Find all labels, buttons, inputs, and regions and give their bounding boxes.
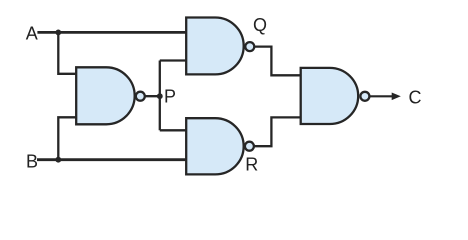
svg-text:P: P	[164, 87, 176, 107]
svg-text:R: R	[245, 154, 258, 174]
svg-text:Q: Q	[253, 15, 267, 35]
svg-text:A: A	[26, 23, 38, 43]
svg-text:B: B	[26, 152, 38, 172]
svg-text:C: C	[409, 87, 422, 107]
